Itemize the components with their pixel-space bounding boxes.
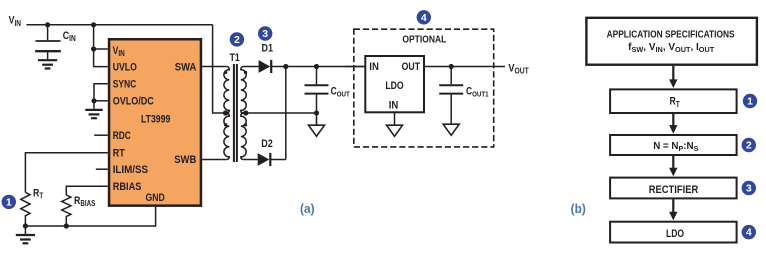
ground triangle COUT1 [443,124,459,135]
arrow 2 [672,114,674,126]
svg-text:D1: D1 [262,43,274,55]
junction COUT bottom [314,110,319,115]
pin stub ILIM/SS [96,168,108,170]
junction primary center tap [223,110,228,115]
svg-text:N = NP:NS: N = NP:NS [653,141,698,153]
svg-text:T1: T1 [230,52,241,64]
transformer T1 primary top winding [224,67,229,114]
phasing dot secondary top [244,71,247,74]
pin stub RDC [94,134,108,136]
transformer T1 core [234,64,237,162]
svg-text:IN: IN [389,100,399,112]
svg-text:D2: D2 [261,138,273,150]
IC U1 LT3999 body [109,39,201,205]
svg-text:3: 3 [746,183,752,195]
svg-text:COUT: COUT [331,86,351,99]
transformer T1 secondary top winding [241,67,246,114]
svg-text:1: 1 [747,96,753,108]
flowchart badge 4 [742,225,756,239]
svg-text:VOUT: VOUT [508,63,529,76]
wire secondary top to D1 [244,66,259,68]
svg-text:(a): (a) [300,202,315,216]
wire bottom ground rail [25,207,155,226]
wire secondary center tap to COUT ground [241,112,317,114]
capacitor COUT [305,67,329,114]
flowchart badge 2 [742,138,756,152]
wire D2 cathode up to rail [285,67,287,160]
svg-text:4: 4 [421,12,427,24]
svg-text:4: 4 [746,227,752,239]
wire OVLO/DC stub [94,100,108,102]
svg-text:CIN: CIN [63,30,76,43]
svg-text:RBIAS: RBIAS [74,195,96,208]
ground below CIN [38,60,57,68]
svg-text:3: 3 [262,28,268,40]
capacitor COUT1 [439,67,463,125]
flowchart box RECTIFIER [610,178,737,199]
svg-text:LDO: LDO [385,80,404,92]
junction RT bottom [23,223,28,228]
svg-text:LT3999: LT3999 [141,114,171,126]
transformer T1 secondary bottom winding [241,113,246,160]
LDO U2 box [365,56,424,112]
wire SYNC to ground [94,84,108,109]
arrow 3 [672,156,674,168]
phasing dot primary top [224,71,227,74]
junction OVLO/DC [91,98,96,103]
svg-text:ILIM/SS: ILIM/SS [113,164,148,176]
transformer T1 primary bottom winding [224,113,229,160]
wire SWA to transformer [201,66,227,68]
wire VIN top rail [27,24,213,26]
diode D1 [259,60,272,73]
svg-text:RECTIFIER: RECTIFIER [649,184,699,196]
svg-text:OPTIONAL: OPTIONAL [402,33,446,45]
junction CIN on VIN rail [45,22,50,27]
junction VIN pin [91,46,96,51]
svg-text:IN: IN [369,62,379,74]
wire LDO OUT to VOUT [424,66,505,68]
optional dashed box [354,29,494,147]
badge 4 (optional LDO) [417,10,431,24]
svg-text:APPLICATION SPECIFICATIONS: APPLICATION SPECIFICATIONS [607,29,735,40]
resistor RBIAS [62,195,71,226]
svg-text:2: 2 [746,140,752,152]
svg-text:RT: RT [113,148,126,160]
ground main (below RT) [16,226,35,243]
svg-text:OUT: OUT [402,61,420,73]
svg-text:RBIAS: RBIAS [113,181,142,193]
wire LDO IN [345,66,365,68]
flowchart badge 1 [743,94,757,108]
svg-text:SWB: SWB [174,155,196,167]
wire D1 cathode to output rail [272,66,365,68]
LDO ground pin [394,112,396,125]
svg-text:COUT1: COUT1 [466,86,489,99]
badge 2 (transformer) [230,32,244,46]
arrow 1 [672,66,674,80]
svg-text:1: 1 [6,197,12,209]
phasing dot primary bottom [224,123,227,126]
svg-text:GND: GND [146,192,165,204]
flowchart box N [610,135,737,155]
wire RT pin [25,153,107,193]
badge 3 (rectifier) [258,26,272,40]
arrow 4 [672,199,674,212]
junction secondary center tap [243,110,248,115]
wire VIN pin stub [94,48,108,50]
flowchart box APPLICATION SPECIFICATIONS [586,18,757,65]
diode D2 [258,153,271,166]
wire D2 cathode [271,159,286,161]
svg-text:RDC: RDC [113,130,131,142]
wire secondary bottom to D2 [244,159,258,161]
svg-text:VIN: VIN [9,15,21,28]
ground below SYNC/OVLO [85,110,102,118]
svg-text:UVLO: UVLO [113,61,137,73]
wire feed down to transformer primary center tap [213,25,227,113]
wire SWB to transformer [201,159,227,161]
phasing dot secondary bottom [244,123,247,126]
resistor RT [21,192,30,226]
junction RBIAS bottom [64,223,69,228]
capacitor CIN [35,25,61,60]
flowchart badge 3 [742,181,756,195]
badge 1 (RT) [2,195,16,209]
ground triangle LDO [387,125,403,136]
junction COUT1 [449,64,454,69]
svg-text:(b): (b) [571,202,586,216]
svg-text:RT: RT [33,187,44,200]
junction D1/D2 [283,64,288,69]
svg-text:SYNC: SYNC [113,79,136,91]
svg-text:LDO: LDO [666,228,685,240]
wire VIN/UVLO feed [94,25,108,67]
flowchart box LDO [610,222,737,243]
svg-text:SWA: SWA [175,62,197,74]
junction COUT top [314,64,319,69]
wire RBIAS pin [66,186,108,195]
flowchart (b) [571,18,758,243]
junction VIN feed on VIN rail [91,22,96,27]
svg-text:fSW, VIN, VOUT, IOUT: fSW, VIN, VOUT, IOUT [628,42,715,54]
ground triangle COUT [309,113,325,136]
flowchart box RT [610,89,737,113]
svg-text:RT: RT [670,96,681,109]
svg-text:2: 2 [234,34,240,46]
svg-text:OVLO/DC: OVLO/DC [113,96,154,108]
